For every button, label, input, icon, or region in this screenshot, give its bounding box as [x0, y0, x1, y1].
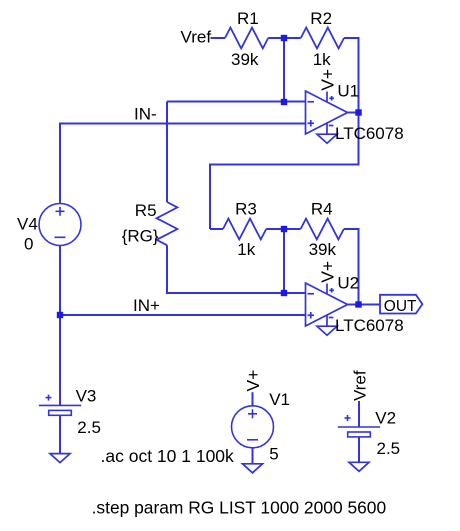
- junction U2 output node: [355, 301, 361, 307]
- ground at V1: [243, 464, 263, 473]
- svg-text:.ac oct 10 1 100k: .ac oct 10 1 100k: [101, 446, 235, 466]
- wire node A down to U1 inverting node: [283, 38, 285, 102]
- op-amp U1: [306, 91, 348, 134]
- wire R1 to node A: [268, 37, 284, 39]
- OUT flag: [380, 295, 422, 314]
- ground at U1 V-: [317, 134, 337, 143]
- V3 plus mark: [46, 397, 52, 399]
- resistor R4: [301, 219, 344, 240]
- U1 inverting input mark: [308, 101, 315, 103]
- svg-text:U2: U2: [337, 274, 359, 293]
- svg-text:0: 0: [24, 234, 33, 253]
- voltage source V2 (battery): [338, 401, 380, 462]
- resistor R2: [301, 28, 344, 49]
- wire U2 output to OUT flag: [348, 304, 381, 306]
- wire node B to R4: [284, 228, 301, 230]
- resistor R3: [223, 219, 266, 240]
- wire R3 left lead: [210, 228, 223, 230]
- svg-text:1k: 1k: [237, 240, 255, 259]
- V1 minus mark: [247, 439, 258, 441]
- V1 bottom wire: [252, 448, 254, 464]
- svg-text:.step param RG LIST 1000 2000: .step param RG LIST 1000 2000 5600: [92, 498, 387, 518]
- svg-text:39k: 39k: [231, 50, 259, 69]
- svg-text:R2: R2: [310, 9, 332, 28]
- resistor R1: [225, 28, 268, 49]
- junction U2 inverting node (R5/node B wire): [281, 290, 287, 296]
- V1 plus mark: [248, 413, 257, 415]
- voltage source V3 (battery): [39, 395, 81, 454]
- svg-text:Vref: Vref: [351, 370, 370, 401]
- U2 noninverting input mark: [308, 314, 315, 316]
- wire upper node to U1 inverting input: [167, 101, 306, 103]
- U2 inverting input mark: [308, 293, 315, 295]
- V3 plus plate: [39, 404, 81, 406]
- svg-text:2.5: 2.5: [377, 439, 401, 458]
- wire IN- net from V4 to U1 noninverting input: [60, 124, 306, 205]
- voltage source V4: [39, 204, 81, 246]
- junction U1 output node: [355, 109, 361, 115]
- svg-text:V2: V2: [375, 408, 396, 427]
- U2 V- pin stub: [326, 315, 328, 326]
- svg-text:V3: V3: [76, 386, 97, 405]
- wire R3 to node B: [266, 228, 284, 230]
- wire node B down to U2 inverting node: [283, 229, 285, 293]
- svg-text:LTC6078: LTC6078: [335, 124, 404, 143]
- U1 V- pin stub: [326, 123, 328, 134]
- U1 V- pin minus mark: [329, 125, 334, 127]
- svg-text:R4: R4: [311, 200, 333, 219]
- V1 top stub to V+ flag: [252, 392, 254, 406]
- V4 minus mark: [55, 236, 66, 238]
- svg-text:39k: 39k: [309, 240, 337, 259]
- U2 V- pin minus mark: [329, 317, 334, 319]
- wire V4 bottom to IN+ node: [59, 246, 61, 316]
- junction upper node at U1 inverting input: [281, 99, 287, 105]
- wire node A to R2: [284, 37, 301, 39]
- svg-text:V+: V+: [318, 261, 338, 283]
- U1 noninverting input mark: [308, 122, 315, 124]
- svg-text:LTC6078: LTC6078: [335, 316, 404, 335]
- resistor R5: [157, 202, 178, 245]
- ground at V2: [349, 462, 369, 471]
- svg-text:R5: R5: [135, 201, 157, 220]
- V2 plus plate: [338, 426, 380, 428]
- svg-text:R1: R1: [237, 9, 259, 28]
- V2 top stub to Vref flag: [358, 401, 360, 427]
- svg-text:{RG}: {RG}: [122, 227, 159, 246]
- U2 V+ pin stub: [326, 284, 328, 294]
- junction node A (R1/R2): [281, 35, 287, 41]
- svg-text:V1: V1: [269, 390, 290, 409]
- U1 V+ pin plus mark: [329, 97, 334, 99]
- svg-text:V+: V+: [243, 370, 263, 392]
- wire IN+ net to U2 noninverting input: [60, 314, 306, 316]
- voltage source V1: [232, 392, 274, 464]
- svg-text:R3: R3: [235, 200, 257, 219]
- wire U1 output stub: [348, 112, 359, 114]
- U1 V+ pin stub: [326, 92, 328, 102]
- svg-text:U1: U1: [337, 82, 359, 101]
- V2 minus plate box: [348, 432, 371, 437]
- V3 bottom wire: [59, 415, 61, 453]
- wire IN+ node down to V3: [59, 315, 61, 405]
- V4 plus mark: [56, 210, 65, 212]
- ground at V3: [50, 454, 70, 463]
- wire R5 bottom to U2 inverting input: [167, 245, 306, 293]
- wire R4 right corner down to U2 output: [344, 229, 359, 305]
- svg-text:OUT: OUT: [384, 298, 417, 315]
- svg-text:2.5: 2.5: [77, 418, 101, 437]
- U2 V+ pin plus mark: [329, 289, 334, 291]
- V2 plus mark: [345, 417, 351, 419]
- wire Vref lead to R1: [211, 37, 226, 39]
- svg-text:5: 5: [269, 445, 278, 464]
- svg-text:V+: V+: [318, 69, 338, 91]
- svg-text:Vref: Vref: [181, 27, 212, 46]
- svg-text:1k: 1k: [313, 50, 331, 69]
- op-amp U2: [306, 283, 348, 326]
- svg-text:IN+: IN+: [133, 296, 160, 315]
- wire R5 top lead: [166, 102, 168, 203]
- wire R2 right corner down past U1 output to R3 left corner: [210, 38, 359, 229]
- svg-text:V4: V4: [17, 215, 38, 234]
- V2 bottom wire: [358, 437, 360, 462]
- ground at U2 V-: [317, 326, 337, 335]
- junction IN+ node at V4: [57, 312, 63, 318]
- junction node B (R3/R4): [281, 226, 287, 232]
- V3 minus plate box: [49, 410, 72, 415]
- svg-text:IN-: IN-: [134, 104, 157, 123]
